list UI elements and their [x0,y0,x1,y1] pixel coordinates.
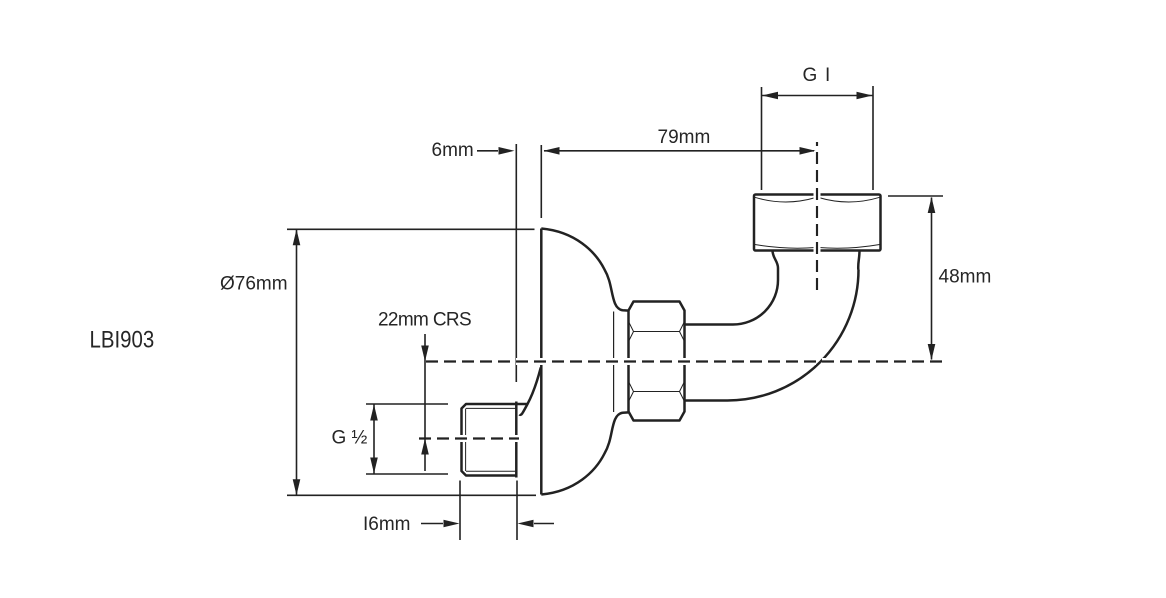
elbow inner arc [733,280,778,325]
top nut chamfer arcs top-left [755,197,816,202]
G1/2 thread fitting outline [462,404,528,476]
svg-text:G ½: G ½ [332,428,368,449]
dim 79mm arrowhead left [544,147,560,155]
G1/2 thread minor lines [466,408,516,471]
dim 6mm arrowhead [499,147,515,155]
dim G1/2 line [373,405,375,474]
spout cut curve on flange [519,368,540,415]
svg-text:Ø76mm: Ø76mm [220,274,288,295]
dim 16mm arrow line right-pointing [421,523,443,525]
top nut chamfer arcs top-right [819,197,880,202]
dim 79mm arrowhead right [800,147,816,155]
pipe bottom line (horizontal run) [685,399,728,402]
middle nut chamfer edges lower-left [629,383,634,401]
svg-text:G I: G I [803,65,832,86]
dim 48mm line [931,198,933,360]
dim 16mm arrow line left-pointing [534,523,554,525]
flange front face [540,229,543,495]
middle nut facet line lower [634,391,680,393]
dim G1/2 arrow down [370,458,378,474]
centerline G1/2 outlet (dashed, white casing) [419,435,519,442]
dim 16mm extension left [459,481,461,541]
dim G1/2 extension top [366,403,448,405]
dim 48mm extension [888,195,943,197]
elbow outer arc [728,270,859,401]
dim G1/2 arrow up [370,405,378,421]
dim 22mm CRS arrow up (to outlet centerline) [421,439,429,455]
middle nut chamfer edges upper-left [629,323,634,341]
thread-relief wiggle left [773,251,779,281]
middle nut chamfer edges lower-right [680,383,685,401]
svg-text:48mm: 48mm [939,267,992,288]
centerline top nut vertical (dashed) [816,142,818,290]
svg-text:79mm: 79mm [658,127,711,148]
dim G1 line [762,95,874,97]
dim G1 arrowhead left [762,92,778,100]
flange front face extension line (79mm left reference) [540,145,542,218]
dim 16mm extension right [516,481,518,541]
centerline G1/2 outlet (dashed) [419,437,519,439]
dim 79mm line [544,150,814,152]
centerline main horizontal (dashed) [425,360,943,362]
dim G1 arrowhead right [857,92,873,100]
dim 48mm arrow down [928,344,936,360]
svg-text:LBI903: LBI903 [90,326,155,353]
top nut chamfer arcs bottom-left [755,245,816,249]
dim G1 extension left [761,87,763,190]
dim 22mm CRS arrow down (to main centerline) [421,346,429,362]
middle nut outline [629,302,685,421]
dim Ø76 arrow up [293,229,301,245]
middle nut facet line upper [634,331,680,333]
dim Ø76 extension top [287,228,535,230]
dim 48mm arrow up [928,197,936,213]
centerline top nut vertical (dashed, white casing) [814,142,821,290]
middle nut chamfer edges upper-right [680,323,685,341]
bell outline top [541,229,628,311]
dim G1 extension right [872,86,874,190]
svg-text:I6mm: I6mm [363,514,411,535]
svg-text:22mm CRS: 22mm CRS [378,310,471,331]
centerline main horizontal (dashed, white casing) [425,358,943,365]
dim Ø76 arrow down [293,479,301,495]
dim G1/2 extension bottom [366,473,448,475]
dim 22mm CRS line [424,334,426,471]
dim 16mm arrowhead left-pointing [518,520,534,528]
dim Ø76 extension bottom [287,494,536,496]
dim 6mm arrow line [477,150,498,152]
thread-relief wiggle right [858,251,859,270]
top nut outline [754,195,881,251]
wall / backplate face line (thin upper part, extension for 6mm) [515,144,517,382]
svg-text:6mm: 6mm [432,140,474,161]
pipe top line (horizontal run) [685,323,734,326]
dim Ø76 line [296,230,298,495]
wall face line thick part beside G1/2 thread [515,402,518,478]
top nut chamfer arcs bottom-right [819,245,880,249]
bell outline bottom [541,412,628,494]
dim 16mm arrowhead right-pointing [444,520,460,528]
bell rim silhouette line [613,312,615,413]
